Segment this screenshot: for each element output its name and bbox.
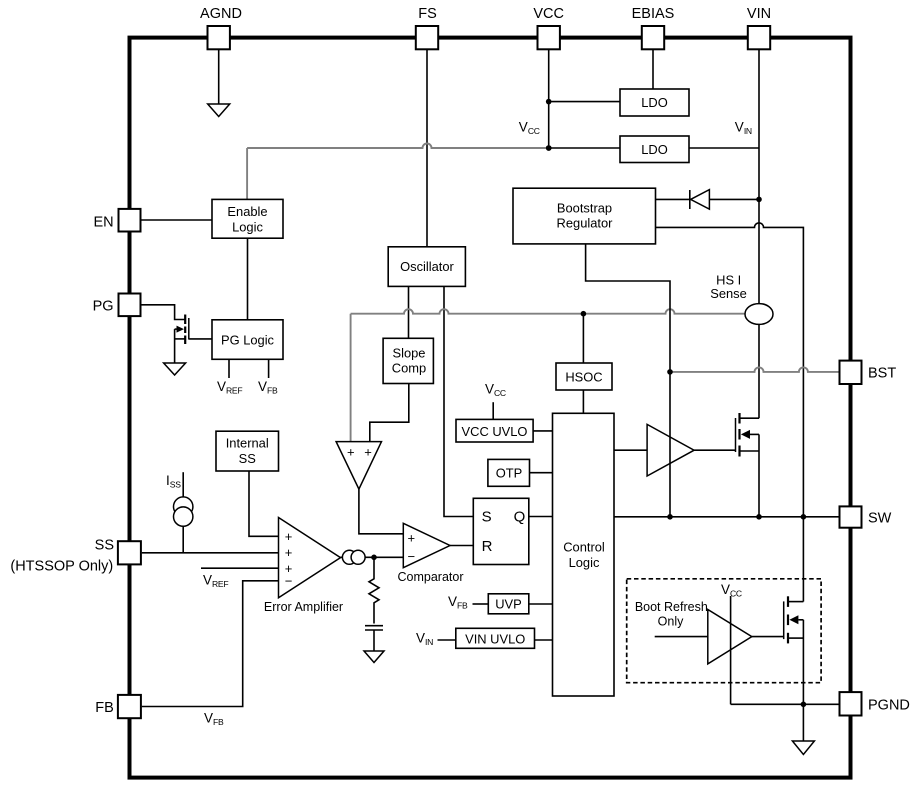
- svg-text:VIN UVLO: VIN UVLO: [465, 632, 525, 647]
- svg-text:PGND: PGND: [868, 698, 910, 714]
- wire ISS tap: [182, 472, 184, 553]
- driver buffer: [647, 424, 694, 476]
- svg-text:VCC UVLO: VCC UVLO: [462, 424, 528, 439]
- svg-text:Regulator: Regulator: [557, 216, 614, 231]
- node comparator input: [371, 555, 377, 561]
- svg-text:+: +: [408, 530, 416, 545]
- svg-text:−: −: [285, 574, 293, 589]
- wire VREF to error amp: [201, 567, 279, 569]
- svg-text:Enable: Enable: [227, 204, 267, 219]
- pin FS: [416, 26, 438, 49]
- node VCC LDO2: [546, 145, 552, 151]
- svg-text:+: +: [285, 529, 293, 544]
- node HS source SW: [756, 514, 762, 520]
- svg-text:UVP: UVP: [495, 597, 522, 612]
- svg-text:Sense: Sense: [710, 286, 747, 301]
- wire to comparator inverting: [374, 556, 403, 558]
- wire EN to enable logic: [141, 219, 213, 221]
- wire VCC boot rail: [730, 596, 732, 704]
- svg-text:EBIAS: EBIAS: [632, 6, 675, 22]
- wire gray VCC distribution: [247, 144, 549, 200]
- resistor R1: [369, 557, 379, 623]
- error amplifier: [279, 518, 341, 598]
- ground PGND: [792, 741, 814, 755]
- transistor boot refresh FET: [784, 596, 804, 704]
- LDO block 1: [620, 89, 689, 116]
- svg-text:Only: Only: [658, 615, 684, 629]
- wire Q to control logic: [529, 516, 553, 518]
- svg-text:LDO: LDO: [641, 95, 668, 110]
- pin VCC: [538, 26, 560, 49]
- wire LDO2 to VIN: [689, 147, 759, 149]
- wire VIN vertical: [758, 49, 760, 418]
- svg-text:PG: PG: [93, 298, 114, 314]
- pin EBIAS: [642, 26, 664, 49]
- pin PG: [119, 294, 141, 317]
- svg-text:VREF: VREF: [217, 379, 242, 396]
- enable logic block: [212, 199, 283, 238]
- svg-text:VREF: VREF: [203, 573, 228, 590]
- wire driver to HS gate: [694, 449, 735, 451]
- wire PGND rail: [731, 703, 840, 705]
- summing amp: [336, 442, 381, 490]
- wire bootstrap regulator to driver rail: [586, 244, 670, 517]
- oscillator block: [388, 247, 465, 287]
- svg-text:VCC: VCC: [533, 6, 564, 22]
- svg-text:−: −: [408, 549, 416, 564]
- svg-text:FS: FS: [418, 6, 437, 22]
- pin VIN: [748, 26, 770, 49]
- svg-text:Logic: Logic: [569, 555, 600, 570]
- pin FB: [118, 695, 141, 718]
- pin EN: [119, 209, 141, 232]
- wire osc to slope comp: [408, 286, 410, 338]
- diode D1: [656, 190, 760, 210]
- wire VIN UVLO to control logic: [535, 639, 553, 641]
- wire buffer input: [655, 636, 708, 638]
- slope comp block: [383, 338, 433, 383]
- wire OTP to control logic: [530, 472, 553, 474]
- svg-text:VIN: VIN: [416, 631, 433, 648]
- svg-text:S: S: [482, 509, 492, 526]
- transistor HS high side FET: [736, 413, 760, 517]
- wire comparator to latch R: [450, 545, 473, 547]
- svg-text:VCC: VCC: [519, 120, 540, 137]
- svg-text:Internal: Internal: [226, 436, 269, 451]
- svg-text:Boot Refresh: Boot Refresh: [635, 600, 708, 614]
- wire PG to transistor: [141, 305, 187, 320]
- wire VCC vertical: [548, 49, 550, 148]
- wire FS to Oscillator: [426, 49, 428, 247]
- transistor Q1 PG pulldown: [175, 315, 189, 364]
- wire summer to comparator: [359, 489, 403, 534]
- wire slope comp to summer: [370, 384, 409, 442]
- wire buffer to boot gate: [752, 636, 784, 638]
- svg-text:Bootstrap: Bootstrap: [557, 201, 612, 216]
- pin AGND: [208, 26, 230, 49]
- svg-text:Comparator: Comparator: [398, 570, 464, 584]
- summing node circles: [342, 550, 356, 564]
- svg-text:Error Amplifier: Error Amplifier: [264, 600, 343, 614]
- chip outline: [130, 38, 851, 778]
- wire BST rail: [670, 367, 840, 371]
- svg-text:Slope: Slope: [393, 346, 426, 361]
- svg-text:Oscillator: Oscillator: [400, 259, 454, 274]
- current source ISS: [174, 497, 193, 516]
- HS current sense ellipse: [745, 304, 773, 325]
- svg-text:+: +: [364, 445, 372, 460]
- svg-text:Control: Control: [563, 540, 605, 555]
- OTP block: [488, 459, 530, 486]
- wire error amp output: [341, 556, 375, 558]
- svg-text:VFB: VFB: [204, 711, 224, 728]
- svg-text:HSOC: HSOC: [565, 370, 602, 385]
- svg-text:VFB: VFB: [448, 594, 468, 611]
- wire HSOC top stub: [582, 314, 584, 363]
- wire osc to latch S: [444, 286, 473, 516]
- svg-text:VIN: VIN: [735, 120, 752, 137]
- wire FB to error amp inverting: [142, 581, 279, 707]
- pin BST: [840, 361, 862, 384]
- svg-text:LDO: LDO: [641, 142, 668, 157]
- node driver rail BST: [667, 369, 673, 375]
- svg-text:Q: Q: [514, 509, 526, 526]
- VCC UVLO block: [456, 419, 533, 442]
- PG logic block: [212, 320, 283, 360]
- pin SW: [840, 506, 862, 527]
- svg-text:Comp: Comp: [392, 361, 426, 376]
- svg-text:SS: SS: [95, 538, 114, 554]
- wire HSOC bottom stub: [582, 390, 584, 413]
- svg-text:+: +: [285, 545, 293, 560]
- comparator: [403, 523, 450, 567]
- ground Q1: [164, 363, 186, 375]
- node gray HSOC: [581, 311, 587, 317]
- wire VFB stub: [268, 359, 270, 378]
- latch SR: [473, 498, 529, 564]
- wire Q1 gate to PG logic: [189, 338, 212, 340]
- wire SS to error amp: [142, 552, 279, 554]
- wire VREF stub: [228, 359, 230, 378]
- UVP block: [488, 594, 529, 614]
- svg-text:(HTSSOP Only): (HTSSOP Only): [10, 558, 113, 574]
- wire bootstrap to boot switch rail: [656, 223, 804, 602]
- pin PGND: [840, 692, 862, 715]
- wire EBIAS to LDO: [652, 49, 654, 89]
- svg-text:FB: FB: [95, 700, 114, 716]
- svg-text:VIN: VIN: [747, 6, 771, 22]
- HSOC block: [556, 363, 612, 390]
- svg-text:BST: BST: [868, 366, 896, 382]
- ground RC: [364, 651, 384, 663]
- wire cap to ground: [373, 630, 375, 651]
- wire enable logic to PG logic: [247, 238, 249, 320]
- wire LDO1 left: [549, 101, 620, 103]
- VIN UVLO block: [456, 628, 535, 648]
- svg-text:VFB: VFB: [258, 379, 278, 396]
- node driver SW: [667, 514, 673, 520]
- node boot rail SW: [801, 514, 807, 520]
- internal SS block: [216, 431, 279, 471]
- svg-text:AGND: AGND: [200, 6, 242, 22]
- svg-text:EN: EN: [93, 215, 113, 231]
- ground AGND: [208, 104, 230, 117]
- wire LDO2 left: [549, 147, 620, 149]
- svg-text:VCC: VCC: [485, 381, 506, 398]
- capacitor C1: [365, 625, 383, 627]
- wire VFB to UVP: [473, 603, 489, 605]
- node PGND: [801, 702, 807, 708]
- node gray VCC: [546, 145, 552, 151]
- svg-text:SS: SS: [239, 451, 256, 466]
- bootstrap regulator block: [513, 188, 656, 244]
- svg-text:SW: SW: [868, 511, 892, 527]
- svg-text:PG Logic: PG Logic: [221, 333, 275, 348]
- svg-text:Logic: Logic: [232, 220, 263, 235]
- wire SW rail: [614, 516, 840, 518]
- boot refresh dashed box: [627, 579, 821, 683]
- wire VCC UVLO to control logic: [533, 430, 552, 432]
- wire gray to summer and HS sense: [351, 309, 746, 441]
- node diode VIN: [756, 197, 762, 203]
- wire PGND to ground: [802, 704, 804, 741]
- wire AGND to ground: [218, 49, 220, 104]
- wire VCC stub: [492, 402, 494, 419]
- control logic block: [553, 413, 615, 696]
- svg-text:ISS: ISS: [166, 473, 181, 490]
- svg-text:+: +: [347, 445, 355, 460]
- pin SS: [118, 541, 141, 564]
- LDO block 2: [620, 136, 689, 163]
- svg-text:VCC: VCC: [721, 582, 742, 599]
- svg-text:R: R: [482, 538, 493, 555]
- wire UVP to control logic: [529, 603, 553, 605]
- wire control logic to driver: [614, 449, 647, 451]
- wire internal SS to error amp: [249, 471, 279, 536]
- boot refresh buffer: [708, 610, 752, 664]
- node VCC LDO1: [546, 99, 552, 105]
- wire VIN to VIN UVLO: [438, 639, 456, 641]
- svg-text:OTP: OTP: [496, 466, 523, 481]
